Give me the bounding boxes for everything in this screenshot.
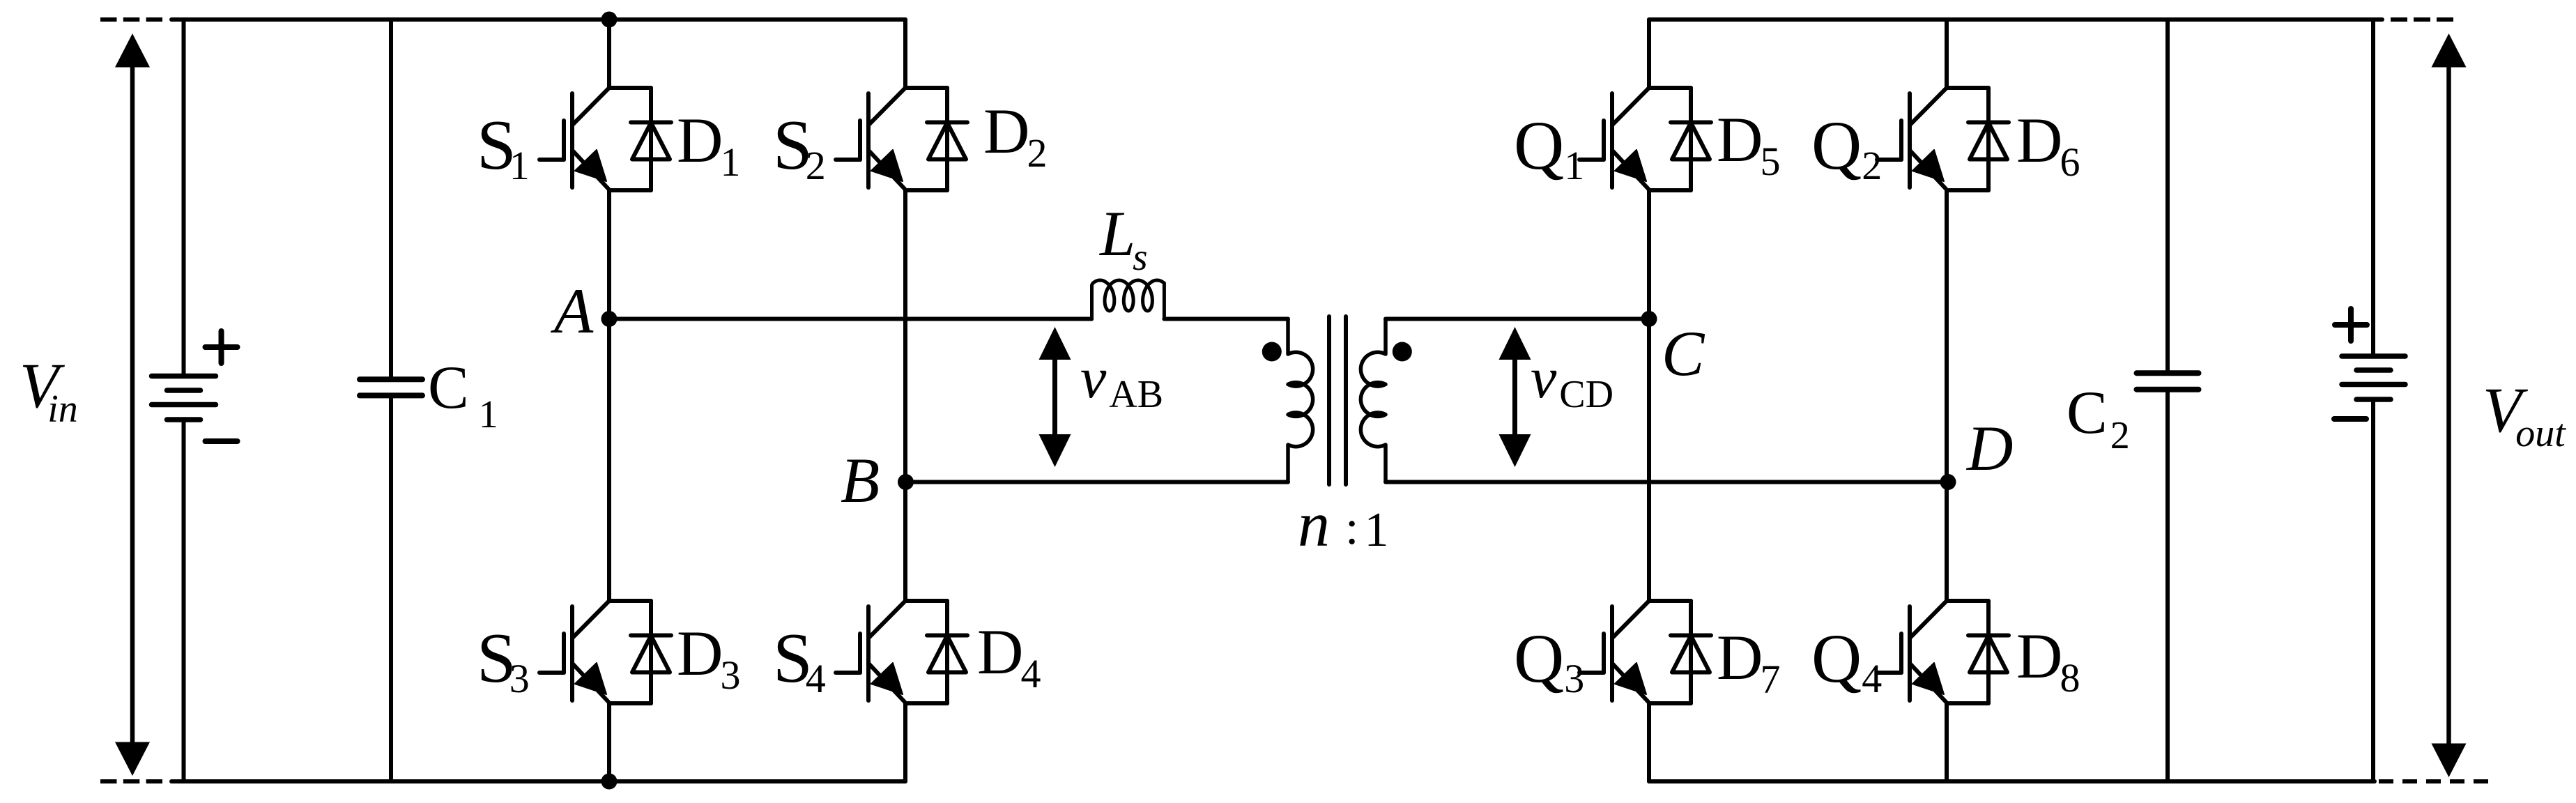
arrow: vCD voltage arrow	[1499, 327, 1531, 467]
transistor S1 (IGBT)	[539, 88, 651, 190]
wire: node B to transformer primary	[905, 480, 1288, 484]
diode D1 (antiparallel)	[631, 88, 671, 190]
voltage source Vout side (battery)	[2342, 20, 2405, 781]
wire: bottom rail right dashed stub	[2379, 779, 2488, 783]
transformer secondary polarity dot	[1393, 342, 1412, 362]
wire: Q1 emitter to Q3 collector (through node C)	[1647, 190, 1651, 601]
label: right battery plus sign	[2335, 309, 2367, 341]
diode D3 (antiparallel)	[631, 601, 671, 703]
wire: Q4 emitter lead to bottom rail	[1945, 703, 1949, 781]
wire: S3 emitter lead to bottom rail	[607, 703, 611, 781]
wire: top rail left (solid)	[171, 17, 905, 22]
wire: transformer secondary to node C	[1386, 317, 1649, 321]
label: battery minus sign	[206, 438, 238, 444]
wire: S2 emitter to S4 collector (through node B)	[903, 190, 907, 601]
transistor Q2 (IGBT)	[1877, 88, 1988, 190]
transistor S2 (IGBT)	[836, 88, 947, 190]
wire: transformer secondary to node D	[1386, 480, 1948, 484]
transformer primary polarity dot	[1262, 342, 1282, 362]
wire: node A to inductor	[609, 317, 1091, 321]
capacitor C2	[2137, 20, 2199, 781]
diode D5 (antiparallel)	[1671, 88, 1711, 190]
transistor S4 (IGBT)	[836, 601, 947, 703]
svg-text:A: A	[550, 275, 594, 346]
wire: bottom rail left (solid)	[171, 779, 905, 783]
svg-text:D: D	[1965, 413, 2013, 484]
node C junction dot	[1641, 311, 1657, 327]
svg-text:B: B	[841, 445, 880, 516]
label: battery plus sign	[206, 331, 238, 363]
wire: S1 emitter to S3 collector (through node A)	[607, 190, 611, 601]
arrow: Vout double-headed measurement arrow	[2432, 33, 2467, 777]
transistor Q3 (IGBT)	[1579, 601, 1691, 703]
wire: Q2 emitter to Q4 collector (through node D)	[1945, 190, 1949, 601]
node D junction dot	[1940, 474, 1956, 490]
transformer core line 2	[1344, 316, 1348, 484]
transformer core line 1	[1327, 316, 1331, 484]
diode D8 (antiparallel)	[1968, 601, 2009, 703]
svg-text:C: C	[1662, 318, 1705, 389]
wire: Q2 collector lead	[1945, 20, 1949, 88]
wire: inductor to transformer primary	[1164, 317, 1288, 321]
transformer secondary winding	[1360, 319, 1386, 482]
wire: bottom rail left dashed stub	[100, 779, 162, 783]
diode D2 (antiparallel)	[927, 88, 967, 190]
wire: S2 collector lead	[903, 20, 907, 88]
transistor Q4 (IGBT)	[1877, 601, 1988, 703]
wire: S1 collector lead	[607, 20, 611, 88]
wire: S4 emitter lead to bottom rail	[903, 703, 907, 781]
node B junction dot	[898, 474, 914, 490]
diode D6 (antiparallel)	[1968, 88, 2009, 190]
wire: top rail right (solid)	[1649, 17, 2382, 22]
wire: top rail left dashed stub	[100, 17, 162, 22]
inductor Ls	[1092, 280, 1165, 319]
diode D7 (antiparallel)	[1671, 601, 1711, 703]
transistor Q1 (IGBT)	[1579, 88, 1691, 190]
voltage source Vin (battery)	[152, 20, 216, 781]
capacitor C1	[360, 20, 422, 781]
transistor S3 (IGBT)	[539, 601, 651, 703]
node A junction dot	[601, 311, 618, 327]
label: right battery minus sign	[2334, 416, 2366, 422]
wire: top rail right dashed stub	[2391, 17, 2454, 22]
wire: Q3 emitter lead to bottom rail	[1647, 703, 1651, 781]
node: junction dot S1 top rail	[601, 12, 618, 28]
node: junction dot S3 bottom rail	[601, 774, 618, 790]
arrow: vAB voltage arrow	[1039, 327, 1071, 467]
wire: bottom rail right (solid)	[1649, 779, 2375, 783]
arrow: Vin double-headed measurement arrow	[115, 33, 150, 776]
transformer primary winding	[1288, 319, 1313, 482]
wire: Q1 collector lead	[1647, 20, 1651, 88]
diode D4 (antiparallel)	[927, 601, 967, 703]
